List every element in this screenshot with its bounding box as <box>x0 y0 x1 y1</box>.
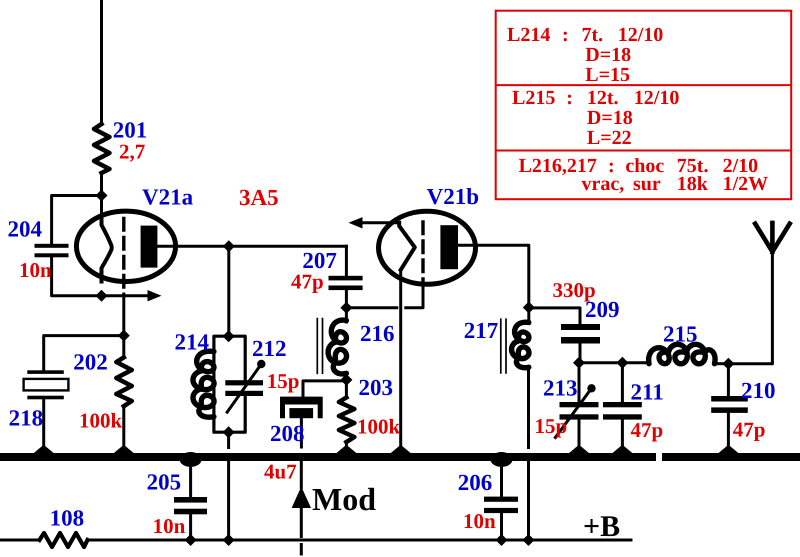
junction node C210/antenna <box>722 358 734 370</box>
filament V21b <box>399 223 415 270</box>
svg-text:204: 204 <box>8 217 43 242</box>
arrowhead filament V21b <box>349 217 363 228</box>
svg-text:215: 215 <box>663 322 698 347</box>
capacitor C204 plates <box>35 244 69 248</box>
wire C204 bottom to filament node <box>52 257 102 295</box>
wire node A to C204 top <box>52 196 102 244</box>
wire node C to C208 top <box>303 381 346 397</box>
coil L216 <box>328 320 346 374</box>
resistor R108 on +B rail <box>40 533 88 547</box>
bus connection C206 (below) <box>491 452 513 467</box>
svg-text:10n: 10n <box>153 514 186 538</box>
junction node grid/218/202 <box>118 330 130 342</box>
junction node rail C205 <box>185 534 197 546</box>
junction node rail L217 <box>523 534 535 546</box>
capacitor C205 plates <box>174 497 207 503</box>
grid V21b (dashed) <box>421 222 424 283</box>
plate V21b <box>440 225 458 269</box>
wire C211 leads <box>621 363 624 455</box>
ground bus <box>0 453 656 461</box>
core bars L216 <box>317 319 322 374</box>
svg-text:212: 212 <box>252 336 287 361</box>
varcap C213 arrow <box>555 389 592 439</box>
wire plate node to C209 <box>529 308 580 324</box>
svg-text:47p: 47p <box>631 418 664 442</box>
wire R203 to ground bus <box>345 442 348 455</box>
antenna symbol <box>755 223 790 252</box>
svg-text:V21a: V21a <box>142 185 194 210</box>
coil L215 <box>649 344 715 363</box>
wire grid node down to R202 <box>122 336 125 358</box>
svg-text:208: 208 <box>270 421 305 446</box>
svg-text:4u7: 4u7 <box>264 460 297 484</box>
coil table frame <box>496 11 792 200</box>
svg-text:D=18: D=18 <box>587 107 633 129</box>
capacitor C206 plates <box>484 497 518 502</box>
filament V21a (S-bend inside tube) <box>102 219 112 282</box>
coil L217 <box>512 322 529 368</box>
wire tank bottom below bus to +B rail <box>227 462 230 541</box>
bus connection C211 <box>612 445 633 454</box>
resistor R203 <box>339 398 355 443</box>
tube V21a envelope <box>76 211 175 281</box>
svg-text:100k: 100k <box>357 415 401 439</box>
varcap C212 arrow <box>226 365 261 414</box>
svg-text:Mod: Mod <box>312 481 376 517</box>
svg-text:202: 202 <box>73 350 108 375</box>
wire node C to R203 <box>345 380 348 398</box>
wire grid node to crystal 218 <box>44 336 124 371</box>
svg-text:214: 214 <box>175 330 210 355</box>
svg-text:210: 210 <box>741 378 776 403</box>
wire V21a plate line <box>155 245 346 248</box>
wire C208 to bus (hop) <box>300 418 303 447</box>
wire V21b plate line <box>456 245 529 307</box>
svg-text:10n: 10n <box>463 509 496 533</box>
wire tank bottom toward bus (hop) <box>227 432 230 447</box>
varcap C213 plates <box>560 402 599 407</box>
wire R201 to tube V21a filament top <box>100 173 103 219</box>
wire coil 216 bottom to node C <box>345 373 348 380</box>
capacitor C209 plates <box>561 324 600 330</box>
wire V21b grid horizontal (hops filament lead) <box>346 283 423 308</box>
wire L217 below bus to +B rail <box>527 462 530 541</box>
bus connection C210 <box>718 445 739 454</box>
svg-text:213: 213 <box>543 376 578 401</box>
junction node R201/C204 <box>96 190 108 202</box>
junction node C211 <box>616 357 628 369</box>
wire plate line down to C207 <box>345 246 348 276</box>
junction node plate V21b/217 <box>523 302 535 314</box>
wire plate node down to tank <box>227 246 230 336</box>
junction node C207/216/grid <box>340 302 352 314</box>
svg-text:218: 218 <box>9 406 44 431</box>
wire C210 leads <box>727 364 730 455</box>
capacitor C207 plates <box>329 276 363 281</box>
wire crystal 218 to ground bus <box>42 399 45 455</box>
svg-text:3A5: 3A5 <box>239 185 279 210</box>
wire coil 215 to node E <box>718 362 729 365</box>
svg-text:47p: 47p <box>291 270 324 294</box>
filament arrow V21b shaft <box>361 221 399 224</box>
wire C206 leads <box>500 460 503 540</box>
svg-text:100k: 100k <box>79 409 123 433</box>
junction node rail tank <box>223 534 235 546</box>
svg-text:2,7: 2,7 <box>119 140 145 164</box>
svg-text:L=22: L=22 <box>587 127 632 149</box>
resistor R201 <box>94 124 110 173</box>
svg-text:209: 209 <box>585 297 620 322</box>
capacitor C208 inner plate <box>289 408 313 418</box>
filament arrow V21a <box>102 294 150 297</box>
tank loop 214/212 frame <box>214 336 245 432</box>
junction node filament/C204 <box>96 290 108 302</box>
junction node tank bottom <box>223 426 235 438</box>
coil L217 feed <box>527 308 530 324</box>
bus connection 218 <box>33 445 54 454</box>
wire node B to coil 216 <box>345 308 348 322</box>
grid V21a (dashed) <box>122 219 125 295</box>
svg-text:206: 206 <box>458 470 493 495</box>
svg-text:vrac,sur18k1/2W: vrac,sur18k1/2W <box>582 173 769 195</box>
wire C205 leads <box>189 460 192 540</box>
varcap C212 plates <box>225 380 263 385</box>
tube V21b envelope <box>379 211 476 284</box>
capacitor C211 plates <box>603 402 642 407</box>
svg-text:47p: 47p <box>733 418 766 442</box>
wire L217 bottom toward bus (hop) <box>527 368 530 448</box>
svg-text:10n: 10n <box>19 258 52 282</box>
svg-text:216: 216 <box>360 321 395 346</box>
wire C209 bottom to node D <box>579 344 582 363</box>
junction node tank top <box>223 330 235 342</box>
svg-text:+B: +B <box>583 510 620 543</box>
svg-text:203: 203 <box>359 375 394 400</box>
core bars L217 <box>501 319 506 373</box>
crystal 218 body <box>24 379 69 391</box>
svg-text:L=15: L=15 <box>585 64 630 86</box>
bus connection R203 <box>336 445 357 454</box>
wire R202 to ground bus <box>122 406 125 455</box>
junction node rail C206 <box>496 534 508 546</box>
+B rail <box>0 539 631 542</box>
filament V21b lead to ground bus <box>399 270 402 455</box>
junction node C209/C213 <box>573 357 585 369</box>
junction node 216/203/208 <box>340 374 352 386</box>
svg-text:217: 217 <box>464 318 499 343</box>
wire top feed to R201 <box>100 0 103 124</box>
svg-text:15p: 15p <box>535 414 568 438</box>
bus connection C205 (below) <box>180 452 202 467</box>
svg-text:108: 108 <box>50 506 85 531</box>
plate V21a <box>141 226 158 268</box>
wire C207 bottom to node B <box>345 290 348 308</box>
coil L214 <box>193 351 214 417</box>
bus connection R202 <box>113 445 134 454</box>
svg-text:V21b: V21b <box>427 184 479 209</box>
wire node E to antenna <box>728 252 772 364</box>
svg-text:D=18: D=18 <box>585 44 631 66</box>
svg-text:211: 211 <box>631 380 664 405</box>
arrowhead Mod <box>292 487 311 509</box>
Mod line below bus <box>300 462 303 555</box>
junction node plate/tank <box>223 240 235 252</box>
crystal 218 plates <box>27 370 64 374</box>
svg-text:205: 205 <box>147 470 182 495</box>
svg-text:L215:12t.12/10: L215:12t.12/10 <box>512 87 679 109</box>
arrowhead filament V21a <box>148 290 162 301</box>
wire C213 leads <box>578 363 581 455</box>
bus connection filament V21b <box>390 445 411 454</box>
svg-text:L214:7t.12/10: L214:7t.12/10 <box>507 24 663 46</box>
grid V21a lead to node <box>122 294 125 336</box>
wire node D to coil 215 <box>579 361 649 364</box>
svg-text:15p: 15p <box>267 369 300 393</box>
resistor R202 <box>116 357 132 406</box>
capacitor C208 bracket plate <box>280 397 323 419</box>
bus connection C213 <box>569 445 590 454</box>
capacitor C210 plates <box>711 396 748 402</box>
